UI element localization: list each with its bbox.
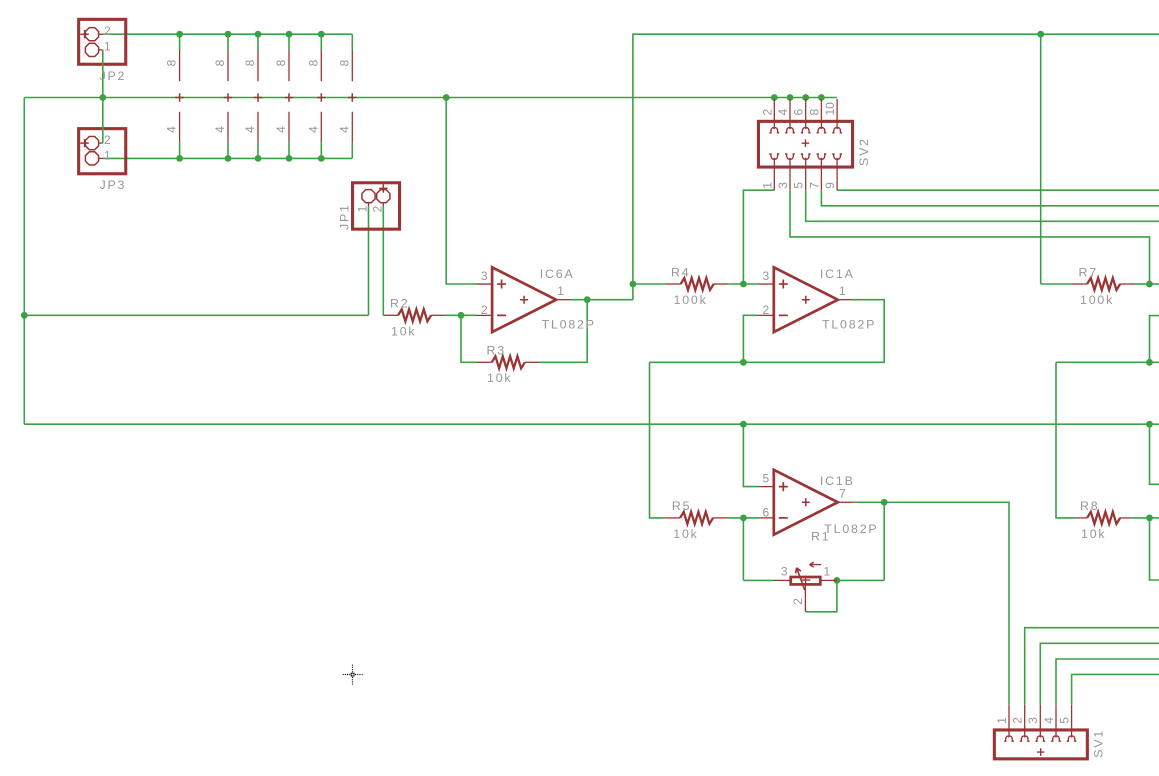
SV2 origin cross: [802, 139, 810, 147]
connector SV2 box: [758, 121, 852, 167]
SV1 pin 3 stub: [1039, 705, 1041, 736]
svg-text:5: 5: [763, 472, 770, 486]
wire SV2.9 to right edge: [837, 189, 1159, 191]
power pin 8 column 3: [257, 50, 259, 81]
wire R5 to IC1B pin6: [728, 517, 758, 519]
junction top row: [176, 31, 183, 38]
junction bottom row: [176, 155, 183, 162]
connector JP3 pad 1: [85, 152, 98, 165]
power pin 8 column 4 wire stub: [288, 34, 290, 50]
svg-text:R8: R8: [1080, 499, 1099, 513]
wire IC6A output: [572, 299, 633, 301]
svg-text:8: 8: [306, 59, 320, 66]
svg-text:JP3: JP3: [100, 178, 127, 192]
power pin 4 column 2: [227, 112, 229, 143]
trimpot R1 wiper diagonal arrow: [796, 568, 805, 590]
wire R2 to IC6A pin2: [446, 314, 477, 316]
svg-text:4: 4: [213, 126, 227, 133]
junction SV2 top pin: [787, 94, 794, 101]
junction IC6A output/R3: [584, 296, 591, 303]
SV2 contact top pin 2: [769, 128, 779, 133]
resistor R4 leads: [666, 283, 681, 285]
wire IC1B out to SV1.1: [853, 502, 1009, 705]
op-amp IC6A pin 1 output stub: [556, 299, 572, 301]
SV2 top pin 6 stub: [805, 99, 807, 127]
svg-text:JP2: JP2: [100, 69, 127, 83]
SV2 contact bottom pin 7: [817, 154, 827, 159]
wire net JP3.1 bottom row: [103, 157, 352, 159]
wire SV1.3 to right edge: [1040, 643, 1159, 705]
wire JP1.1 vertical: [368, 206, 370, 315]
trimpot R1 origin cross: [801, 576, 811, 585]
wire into R7: [1041, 283, 1072, 285]
svg-text:TL082P: TL082P: [822, 317, 876, 331]
connector JP3 pad 2: [85, 137, 98, 150]
svg-text:3: 3: [481, 269, 488, 283]
junction bottom row: [255, 155, 262, 162]
junction top row: [286, 31, 293, 38]
wire pot pin1 row: [837, 579, 884, 581]
wire mid rail down to IC6A pin3: [446, 98, 476, 285]
resistor R5 body: [680, 512, 713, 524]
pin cross column 6 on mid rail: [348, 93, 356, 101]
wire SV1.5 to right edge: [1072, 674, 1159, 704]
resistor R7 body: [1087, 278, 1120, 290]
junction SV2 top pin: [802, 94, 809, 101]
JP3 pin 2 cross: [80, 139, 88, 147]
JP2 pin 2 cross: [80, 30, 88, 38]
svg-text:4: 4: [776, 109, 790, 116]
junction IC1B output: [881, 499, 888, 506]
junction pot pin1/wiper: [834, 577, 841, 584]
power pin 4 column 6 wire stub: [351, 142, 353, 158]
connector JP2 box: [79, 19, 126, 64]
svg-text:4: 4: [1042, 717, 1056, 724]
power pin 4 column 5: [320, 112, 322, 143]
power pin 8 column 2 wire stub: [227, 34, 229, 50]
wire to pot pin3: [743, 579, 774, 581]
SV2 contact bottom pin 3: [785, 154, 795, 159]
trimpot R1 pin 2 stub: [804, 584, 806, 612]
svg-text:1: 1: [104, 148, 111, 162]
svg-text:9: 9: [823, 182, 837, 189]
svg-text:IC6A: IC6A: [540, 267, 575, 281]
svg-text:R2: R2: [390, 297, 409, 311]
wire JP2.1 down to mid rail: [102, 50, 104, 98]
power pin 4 column 3 wire stub: [257, 142, 259, 158]
power pin 8 column 1: [179, 50, 181, 81]
svg-text:2: 2: [791, 598, 805, 605]
junction rail right: [1146, 421, 1153, 428]
wire R4 to IC1A pin3: [728, 283, 758, 285]
JP1 pin 1 stub: [368, 203, 370, 207]
power pin 8 column 4: [288, 50, 290, 81]
svg-text:1: 1: [995, 717, 1009, 724]
JP2 pin 1 stub: [98, 49, 103, 51]
junction R5/IC1B pin6/pot: [740, 515, 747, 522]
op-amp IC1A + input mark: [779, 280, 788, 289]
wire pot wiper to pin1: [805, 580, 837, 611]
svg-text:R1: R1: [811, 530, 830, 544]
SV1 pin 4 stub: [1055, 705, 1057, 736]
wire down into R8: [1056, 362, 1076, 518]
junction left vertical: [21, 312, 28, 319]
op-amp IC6A - input mark: [497, 314, 506, 316]
SV2 contact bottom pin 1: [769, 154, 779, 159]
resistor R2 body: [398, 309, 431, 321]
SV1 contact pin 2: [1020, 736, 1030, 741]
junction SV2 top pin: [771, 94, 778, 101]
op-amp IC1A pin 3 stub: [758, 283, 774, 285]
svg-text:8: 8: [337, 59, 351, 66]
SV1 pin 5 stub: [1071, 705, 1073, 736]
op-amp IC1B pin 7 output stub: [838, 501, 854, 503]
power pin 8 column 3 wire stub: [257, 34, 259, 50]
trimpot R1 pin 3 stub: [774, 579, 791, 581]
wire SV1.2 to right edge: [1025, 628, 1159, 705]
connector JP1 pad 2: [377, 190, 390, 203]
power pin 4 column 4 wire stub: [288, 142, 290, 158]
op-amp IC1B pin 5 stub: [758, 486, 774, 488]
wire long rail y=424: [24, 423, 1159, 425]
op-amp IC6A triangle: [492, 267, 556, 332]
svg-text:IC1A: IC1A: [820, 267, 855, 281]
SV2 bottom pin 7 stub: [820, 159, 822, 190]
power pin 4 column 2 wire stub: [227, 142, 229, 158]
svg-text:R3: R3: [487, 344, 506, 358]
wire down to R5: [650, 362, 666, 518]
op-amp IC1B center + mark: [802, 498, 810, 506]
svg-text:10k: 10k: [673, 527, 698, 541]
svg-text:SV2: SV2: [857, 137, 871, 166]
svg-text:8: 8: [213, 59, 227, 66]
wire JP3.2 up to mid rail: [102, 98, 104, 144]
power pin 8 column 2: [227, 50, 229, 81]
svg-text:6: 6: [792, 109, 806, 116]
SV2 contact top pin 10: [832, 128, 842, 133]
wire output down to pot: [883, 502, 885, 580]
SV2 top pin 10 stub: [836, 99, 838, 127]
svg-text:100k: 100k: [674, 293, 708, 307]
svg-text:3: 3: [1026, 717, 1040, 724]
wire R3 left branch: [461, 315, 477, 362]
crosshair cursor: [343, 665, 363, 685]
op-amp IC1B - input mark: [779, 517, 788, 519]
svg-text:10k: 10k: [487, 371, 512, 385]
wire long mid rail y=97: [24, 97, 837, 99]
svg-text:JP1: JP1: [338, 203, 352, 230]
SV1 contact pin 5: [1067, 736, 1077, 741]
wire rail to IC1B pin5: [743, 424, 758, 486]
svg-text:3: 3: [776, 182, 790, 189]
wire R8 top row: [1056, 361, 1159, 363]
power pin 8 column 5 wire stub: [320, 34, 322, 50]
svg-text:2: 2: [481, 303, 488, 317]
power pin 8 column 6: [351, 50, 353, 81]
svg-text:SV1: SV1: [1092, 729, 1106, 758]
trimpot R1 left arrow: [810, 562, 822, 567]
svg-text:3: 3: [763, 269, 770, 283]
SV2 bottom pin 3 stub: [789, 159, 791, 190]
wire IC1A pin2 feedback: [743, 315, 758, 362]
svg-text:2: 2: [370, 205, 384, 212]
pin cross column 2 on mid rail: [224, 93, 232, 101]
pin cross column 3 on mid rail: [254, 93, 262, 101]
junction R4/IC1A pin3/SV2.1: [740, 281, 747, 288]
connector JP3 box: [79, 129, 126, 174]
wire R8 net right edge: [1150, 517, 1159, 519]
wire SV1.4 to right edge: [1056, 659, 1159, 705]
wire R3 right up to output: [540, 300, 588, 363]
wire SV2.3 to R7: [790, 190, 1150, 284]
wire R7 right: [1135, 283, 1149, 285]
svg-text:7: 7: [807, 182, 821, 189]
resistor R3 body: [492, 356, 525, 368]
connector SV1 box: [994, 730, 1087, 759]
junction top row: [225, 31, 232, 38]
wire IC1B pin6 down to pot pin3: [742, 518, 744, 581]
pin cross column 4 on mid rail: [285, 93, 293, 101]
svg-text:R4: R4: [671, 265, 690, 279]
svg-text:6: 6: [763, 506, 770, 520]
connector JP1 pad 1: [362, 190, 375, 203]
op-amp IC1A center + mark: [802, 296, 810, 304]
junction bottom row: [286, 155, 293, 162]
resistor R2 leads: [383, 314, 398, 316]
SV1 pin 1 stub: [1008, 705, 1010, 736]
JP3 pin 2 stub: [98, 142, 103, 144]
power pin 4 column 5 wire stub: [320, 142, 322, 158]
wire IC6A out up to top rail: [633, 34, 1159, 300]
junction JP2/JP3 on mid rail: [99, 94, 106, 101]
svg-text:4: 4: [165, 126, 179, 133]
junction R2/R3 branch: [458, 312, 465, 319]
op-amp IC1A pin 1 output stub: [838, 299, 854, 301]
power pin 8 column 1 wire stub: [179, 34, 181, 50]
JP3 pin 1 stub: [98, 157, 103, 159]
SV2 bottom pin 9 stub: [836, 159, 838, 190]
SV2 bottom pin 1 stub: [773, 159, 775, 190]
svg-text:8: 8: [274, 59, 288, 66]
svg-text:2: 2: [104, 24, 111, 38]
svg-text:4: 4: [274, 126, 288, 133]
wire IC1A output loop: [650, 300, 885, 363]
svg-text:8: 8: [243, 59, 257, 66]
op-amp IC6A pin 3 stub: [476, 283, 492, 285]
JP2 pin 2 stub: [98, 33, 103, 35]
svg-text:8: 8: [807, 109, 821, 116]
op-amp IC1B + input mark: [779, 482, 788, 491]
svg-text:2: 2: [1011, 717, 1025, 724]
resistor R7 leads: [1072, 283, 1087, 285]
svg-text:R7: R7: [1079, 265, 1098, 279]
JP1 pin 2 stub: [382, 203, 384, 207]
wire left vertical x=24: [23, 98, 25, 425]
resistor R8 body: [1087, 512, 1120, 524]
resistor R8 leads: [1076, 517, 1087, 519]
svg-text:7: 7: [839, 487, 846, 501]
wire R7 net to right edge: [1150, 283, 1159, 285]
SV2 top pin 4 stub: [789, 99, 791, 127]
op-amp IC1A triangle: [774, 267, 838, 332]
connector JP2 pad 2: [85, 28, 98, 41]
op-amp IC1A - input mark: [779, 314, 788, 316]
junction top row: [255, 31, 262, 38]
wire net JP2.2 top row: [103, 33, 352, 35]
power pin 8 column 6 wire stub: [351, 34, 353, 50]
connector JP1 box: [353, 183, 400, 229]
svg-text:IC1B: IC1B: [820, 474, 855, 488]
svg-text:5: 5: [1057, 717, 1071, 724]
SV2 top pin 2 stub: [773, 99, 775, 127]
svg-text:100k: 100k: [1080, 293, 1114, 307]
SV1 contact pin 3: [1035, 736, 1045, 741]
SV2 contact bottom pin 5: [801, 154, 811, 159]
junction mid rail to IC6A pin3: [443, 94, 450, 101]
resistor R4 body: [681, 278, 714, 290]
svg-text:1: 1: [356, 205, 370, 212]
power pin 4 column 4: [288, 112, 290, 143]
SV1 origin cross: [1037, 748, 1045, 756]
SV1 contact pin 4: [1051, 736, 1061, 741]
svg-text:1: 1: [557, 284, 564, 298]
power pin 8 column 5: [320, 50, 322, 81]
SV2 contact top pin 4: [785, 128, 795, 133]
wire top rail down to R7: [1040, 34, 1042, 284]
junction feedback row: [740, 359, 747, 366]
power pin 4 column 1: [179, 112, 181, 143]
junction top rail right: [1037, 31, 1044, 38]
SV1 pin 2 stub: [1024, 705, 1026, 736]
op-amp IC1A pin 2 stub: [758, 314, 774, 316]
power pin 4 column 1 wire stub: [179, 142, 181, 158]
resistor R5 leads: [665, 517, 680, 519]
SV2 bottom pin 5 stub: [805, 159, 807, 190]
svg-text:1: 1: [824, 565, 831, 579]
op-amp IC6A pin 2 stub: [476, 314, 492, 316]
op-amp IC6A + input mark: [497, 280, 506, 289]
svg-text:4: 4: [243, 126, 257, 133]
svg-text:8: 8: [165, 59, 179, 66]
svg-text:4: 4: [337, 126, 351, 133]
wire rail down right edge y=484: [1150, 424, 1159, 484]
SV2 contact top pin 8: [817, 128, 827, 133]
svg-text:TL082P: TL082P: [542, 317, 596, 331]
junction bottom row: [225, 155, 232, 162]
wire JP1.2 vertical to R2: [382, 206, 384, 315]
SV1 contact pin 1: [1004, 736, 1014, 741]
pin cross column 5 on mid rail: [317, 93, 325, 101]
junction rail to IC1B pin5: [740, 421, 747, 428]
wire R8 net down right edge y=580: [1150, 518, 1159, 580]
svg-text:TL082P: TL082P: [824, 522, 878, 536]
JP1 pin 2 cross: [379, 184, 387, 192]
junction SV2 top pin: [818, 94, 825, 101]
wire SV2.5 to right edge: [806, 190, 1159, 221]
wire to R4: [633, 283, 666, 285]
resistor R3 leads: [477, 361, 492, 363]
svg-text:5: 5: [792, 182, 806, 189]
svg-text:10k: 10k: [1081, 527, 1106, 541]
wire JP1.1 horizontal: [24, 314, 368, 316]
svg-text:3: 3: [781, 565, 788, 579]
op-amp IC1B pin 6 stub: [758, 517, 774, 519]
wire SV2.1 down to IC1A pin3: [743, 190, 774, 284]
power pin 4 column 3: [257, 112, 259, 143]
junction top row: [318, 31, 325, 38]
power pin 4 column 6: [351, 112, 353, 143]
svg-text:1: 1: [839, 284, 846, 298]
SV2 contact top pin 6: [801, 128, 811, 133]
junction bottom row: [318, 155, 325, 162]
svg-text:R5: R5: [672, 499, 691, 513]
junction R7 right: [1146, 281, 1153, 288]
junction IC6A out to R4 row: [630, 281, 637, 288]
wire SV2.7 to right edge: [821, 190, 1159, 206]
junction R8 top row right: [1146, 359, 1153, 366]
trimpot R1 pin 1 stub: [820, 579, 837, 581]
trimpot R1 body: [791, 577, 821, 584]
op-amp IC1B triangle: [774, 470, 838, 535]
wire right edge y=315 to mid: [1150, 316, 1159, 363]
svg-text:2: 2: [763, 303, 770, 317]
svg-text:10k: 10k: [391, 324, 416, 338]
svg-text:10: 10: [823, 102, 837, 116]
op-amp IC6A center + mark: [520, 296, 528, 304]
svg-text:2: 2: [104, 133, 111, 147]
junction R8 right: [1146, 515, 1153, 522]
connector JP2 pad 1: [85, 43, 98, 56]
SV2 contact bottom pin 9: [832, 154, 842, 159]
pin cross column 1 on mid rail: [175, 93, 183, 101]
svg-text:4: 4: [306, 126, 320, 133]
svg-text:1: 1: [104, 40, 111, 54]
SV2 top pin 8 stub: [820, 99, 822, 127]
svg-text:2: 2: [760, 109, 774, 116]
wire R8 right: [1131, 517, 1149, 519]
svg-text:1: 1: [760, 182, 774, 189]
